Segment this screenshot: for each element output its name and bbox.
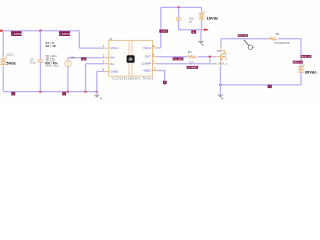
wire VCC1 riser [78, 31, 80, 48]
svg-text:IN-: IN- [110, 62, 114, 66]
svg-text:U1: U1 [109, 37, 113, 41]
svg-text:R4: R4 [188, 50, 192, 54]
svg-text:V_DRIVE: V_DRIVE [10, 32, 22, 36]
wire VPULSE top [67, 58, 69, 61]
svg-text:R5: R5 [276, 32, 280, 36]
wire 30V bottom [220, 72, 301, 85]
svg-text:IN+: IN+ [110, 56, 115, 60]
wire GND1 ground stub [96, 92, 98, 95]
wire GND1 [97, 71, 105, 91]
wire source vertical [219, 66, 221, 95]
svg-text:GND1: GND1 [110, 69, 119, 73]
wire V1 minus to bottom rail [2, 67, 4, 92]
net alias box B on top rail [59, 31, 71, 36]
net alias box drain [238, 34, 249, 37]
wire gate node [198, 56, 217, 58]
voltage source V4 30Vdc battery [298, 64, 305, 72]
wire top-left net rail [0, 30, 79, 32]
wire to ground arrow 18V [200, 30, 202, 41]
net alias box small under 18V [191, 30, 196, 34]
net alias box CLAMP [187, 66, 199, 69]
junction dot left edge [0, 30, 2, 32]
junction dot C10 top [177, 6, 179, 8]
svg-text:5Vdc: 5Vdc [6, 61, 16, 66]
VPULSE parameters text [45, 41, 59, 67]
wire IN+ [68, 57, 105, 59]
svg-text:VDS_SW: VDS_SW [238, 35, 248, 37]
junction dot rail IN- [84, 90, 86, 92]
svg-text:VCC1: VCC1 [110, 46, 118, 50]
net alias box right 1 [301, 55, 312, 58]
svg-text:power_MOS_p: power_MOS_p [210, 61, 228, 65]
net alias box OUT [173, 57, 184, 60]
pin stub VCC2 [153, 47, 158, 49]
svg-text:CLAMP: CLAMP [141, 62, 151, 66]
wire R5 to corner [278, 39, 301, 67]
wire VCC2 to riser [157, 47, 161, 49]
svg-text:VG_DRV: VG_DRV [174, 59, 183, 61]
wire 18V top rail [161, 6, 202, 8]
wire bottom-left ground rail [3, 91, 97, 93]
ground 0 symbol right rail [268, 85, 272, 88]
svg-text:1u: 1u [189, 20, 192, 24]
pin names right [141, 46, 152, 73]
svg-text:30Vdc: 30Vdc [305, 69, 318, 74]
svg-text:V_DRIVE: V_DRIVE [59, 32, 71, 36]
ground arrow GND1 [94, 95, 102, 99]
op-amp U1 gate driver body [109, 40, 153, 76]
junction dot 18V bottom [204, 29, 206, 31]
svg-text:PER = 50u: PER = 50u [45, 63, 59, 67]
wire VEE2 [157, 71, 165, 86]
junction dot rail GND1 [96, 90, 98, 92]
junction dot rail C3 [39, 90, 41, 92]
ground 0 symbol VEE2 [163, 81, 167, 84]
wire drain rail [221, 38, 268, 40]
pin stub IN+ [104, 57, 108, 59]
ground 0 symbol mid [62, 92, 66, 95]
wire VCC1 to pin 1 [79, 47, 104, 49]
wire C3 top [39, 31, 41, 59]
wire VCC2 riser [160, 7, 162, 48]
svg-text:10.51961579: 10.51961579 [274, 41, 290, 45]
pin numbers left [103, 45, 105, 71]
junction dot gate [209, 56, 211, 58]
capacitor C3 [38, 60, 44, 62]
wire OUT [157, 56, 188, 58]
pin stub VEE2 [153, 70, 158, 72]
mouse cursor [244, 40, 255, 50]
ground 0 symbol left [11, 92, 15, 95]
pin stub OUT [153, 56, 158, 58]
pin stub VCC1 [104, 47, 108, 49]
wire IN- [86, 64, 105, 92]
net alias box A on top rail [10, 31, 22, 36]
wire CLAMP [157, 63, 210, 65]
transistor M1 power MOSFET [216, 46, 227, 65]
svg-text:UCC5390SMDWV_TRANS: UCC5390SMDWV_TRANS [112, 77, 153, 81]
svg-text:Vin: Vin [71, 55, 75, 59]
resistor R4 [188, 55, 197, 58]
wire C10 bottom [179, 21, 205, 30]
junction dot source rail [219, 84, 221, 86]
svg-text:VBUS_DC: VBUS_DC [301, 56, 312, 58]
voltage source V1 5Vdc battery [0, 56, 7, 66]
ground arrow source [217, 95, 223, 100]
svg-text:M1: M1 [217, 49, 221, 53]
svg-text:VCC2: VCC2 [161, 31, 168, 33]
wire clamp riser [209, 57, 211, 64]
svg-text:VCC2: VCC2 [143, 46, 151, 50]
svg-text:18Vdc: 18Vdc [207, 16, 220, 21]
wire VPULSE bottom [67, 67, 69, 92]
resistor R5 [268, 38, 277, 41]
svg-text:VCLAMP: VCLAMP [188, 66, 198, 69]
svg-text:OUT: OUT [145, 55, 152, 59]
pin numbers right [153, 45, 156, 71]
U1 logo square [127, 55, 135, 63]
net alias box right 2 [293, 61, 304, 64]
wire left vertical to V1 [2, 31, 4, 57]
wire drain riser [220, 39, 222, 47]
wire C3 bottom [39, 62, 41, 91]
svg-text:V2 = 18: V2 = 18 [45, 44, 55, 48]
net alias box VCC2 [159, 30, 168, 34]
svg-text:VEE2: VEE2 [143, 69, 151, 73]
pin names left [110, 46, 119, 73]
voltage source V3 18Vdc battery [198, 7, 205, 29]
voltage source V2 VPULSE [65, 60, 71, 66]
pin stub GND1 [104, 70, 108, 72]
capacitor C10 [176, 18, 182, 20]
pin stub CLAMP [153, 63, 158, 65]
isolation barrier lines [129, 41, 132, 76]
pin stub IN- [104, 63, 108, 65]
junction dot rail VPULSE [67, 90, 69, 92]
svg-text:VBUS_DC: VBUS_DC [293, 62, 304, 64]
svg-text:0.1u: 0.1u [30, 61, 36, 65]
net alias box Vin [81, 57, 86, 60]
junction dot top rail C3 branch [39, 30, 41, 32]
ground arrow 18V [198, 41, 204, 46]
svg-text:VCC1: VCC1 [6, 53, 14, 57]
red wire stub 18V bottom [204, 29, 208, 31]
wire C10 top [178, 7, 180, 17]
